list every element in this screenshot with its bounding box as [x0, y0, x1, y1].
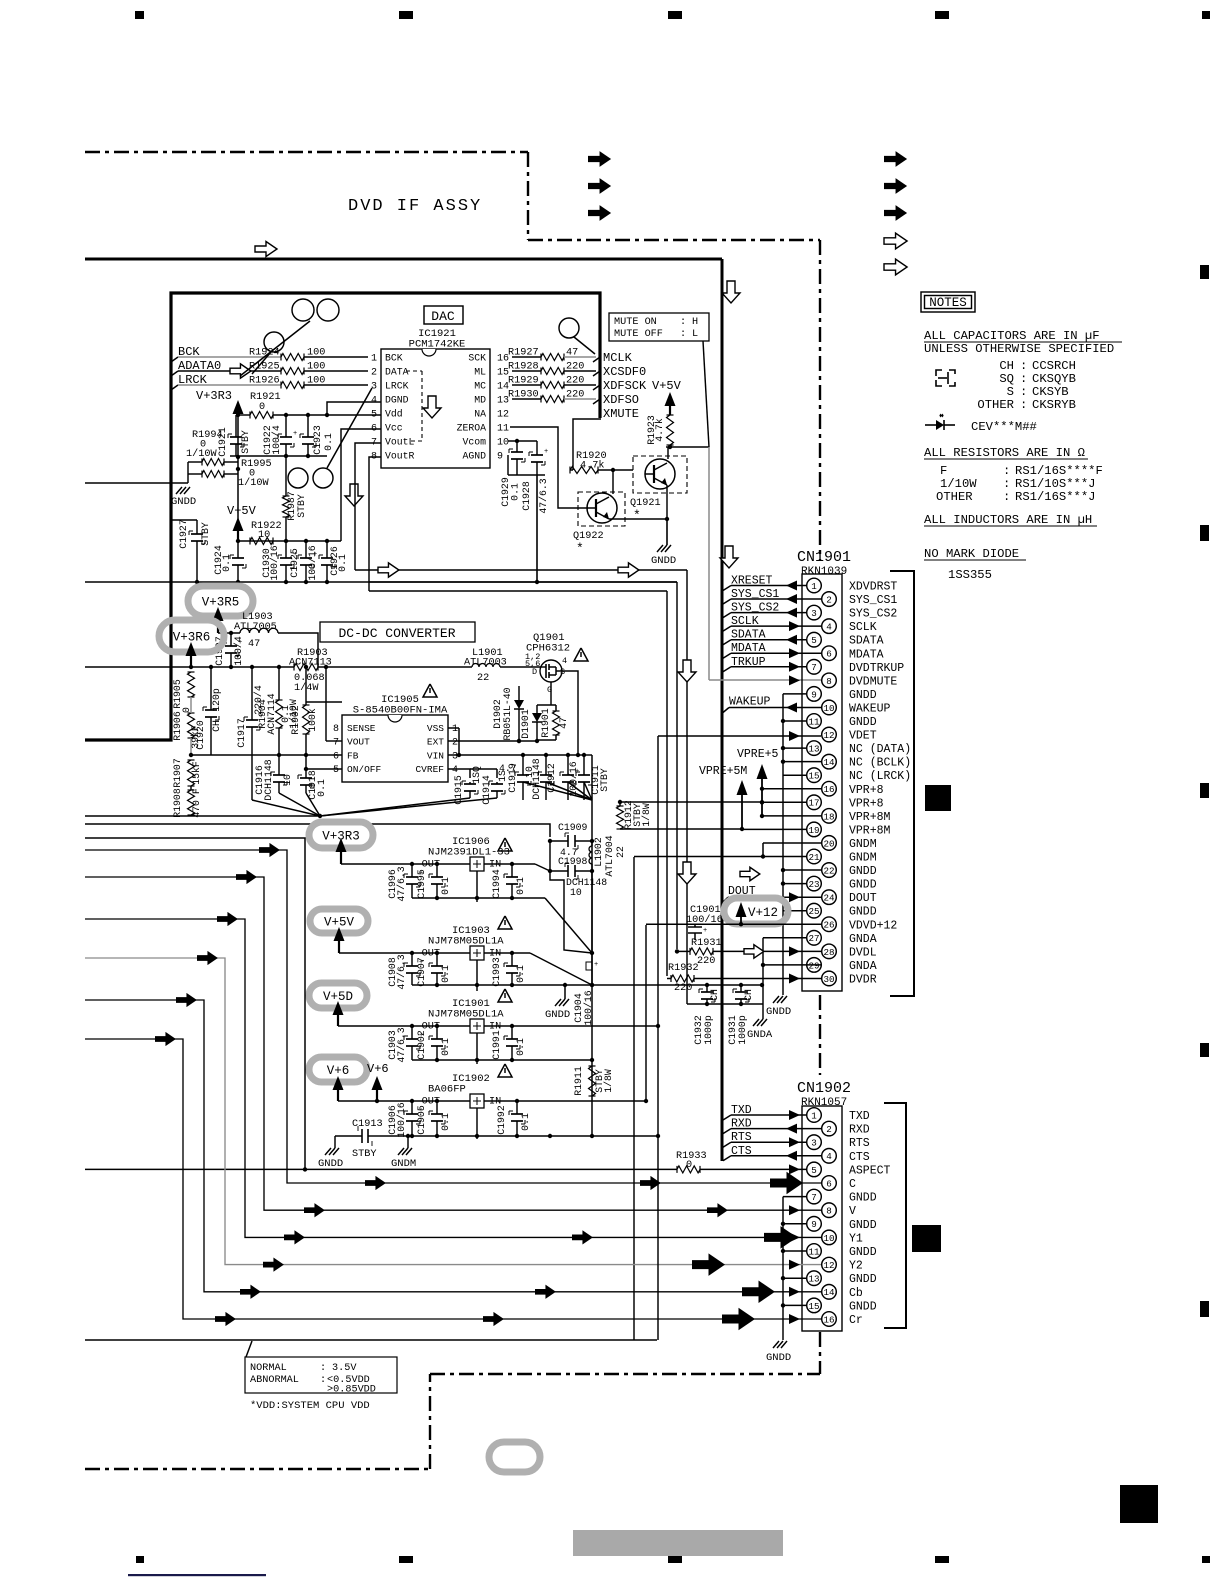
- svg-text:R1921: R1921: [250, 392, 281, 403]
- svg-text:DCH1148: DCH1148: [263, 759, 274, 800]
- svg-text:4: 4: [826, 622, 832, 633]
- capacitor C1921 STBY: [235, 415, 237, 437]
- svg-text:V+5V: V+5V: [652, 379, 682, 393]
- wire VIN: [448, 754, 578, 756]
- capacitor C1902 0.1: [436, 1026, 438, 1039]
- wire VPR+8M stub pin19: [742, 828, 806, 830]
- svg-text:C1902: C1902: [416, 1030, 427, 1060]
- svg-text:GNDA: GNDA: [849, 960, 877, 973]
- wire cap bottom rail: [230, 455, 327, 457]
- svg-text:C1913: C1913: [352, 1119, 383, 1130]
- svg-text:D: D: [532, 667, 537, 677]
- capacitor C1994 0.1: [511, 864, 513, 877]
- power arrow V+5V mute: [665, 392, 676, 406]
- arrow large before pin 14: [742, 1281, 775, 1304]
- svg-text:47/6.3: 47/6.3: [396, 866, 407, 901]
- svg-text:C: C: [849, 1178, 856, 1191]
- svg-text:RKN1039: RKN1039: [801, 566, 847, 578]
- ground GNDD CN1902: [773, 1341, 779, 1348]
- capacitor C1905 0.1: [436, 1101, 438, 1114]
- open down arrow below IC1921: [345, 484, 363, 506]
- svg-text:5: 5: [811, 635, 817, 646]
- capacitor C1917 220/4: [251, 667, 253, 720]
- svg-text:CN1901: CN1901: [797, 549, 851, 566]
- svg-text:0.1: 0.1: [323, 433, 334, 451]
- measurement note box: [246, 1341, 252, 1357]
- svg-text:CVREF: CVREF: [415, 764, 444, 775]
- wire Q1921 emitter to ground: [666, 519, 668, 545]
- wire VDET trunk: [657, 736, 659, 1136]
- svg-text:220: 220: [674, 983, 692, 994]
- svg-text:SYS_CS2: SYS_CS2: [849, 608, 897, 621]
- svg-text:4: 4: [826, 1151, 832, 1162]
- svg-text:GNDD: GNDD: [766, 1352, 791, 1364]
- wire IC1906 in diag: [535, 864, 550, 871]
- wire GNDA stubs: [763, 937, 806, 939]
- svg-text:NJM78M05DL1A: NJM78M05DL1A: [428, 936, 504, 948]
- svg-text:9: 9: [811, 689, 817, 700]
- svg-text:20: 20: [823, 838, 834, 849]
- warning mark IC1902: [498, 1064, 512, 1077]
- svg-text:11: 11: [808, 716, 820, 727]
- wire rail 667: [85, 666, 294, 668]
- wire VoutL drop: [355, 443, 381, 570]
- wire BCK: [178, 356, 281, 358]
- svg-text:V+5V: V+5V: [324, 916, 355, 930]
- svg-text:NOTES: NOTES: [929, 296, 967, 310]
- capacitor C1914 1S: [496, 782, 498, 784]
- svg-text:ACN7114: ACN7114: [266, 693, 277, 734]
- svg-text:C1905: C1905: [416, 1105, 427, 1135]
- svg-text:VPR+8M: VPR+8M: [849, 811, 891, 824]
- capacitor C1920 120p CH: [210, 667, 212, 710]
- svg-text:8: 8: [826, 1206, 832, 1217]
- bracket CN1901: [890, 571, 914, 996]
- svg-text:GNDA: GNDA: [747, 1029, 773, 1041]
- svg-text:C1928: C1928: [521, 481, 532, 511]
- svg-text:21: 21: [808, 852, 820, 863]
- svg-text:V+3R3: V+3R3: [196, 389, 232, 403]
- svg-text:23: 23: [808, 879, 819, 890]
- ground GNDA CN1901: [753, 1019, 759, 1026]
- wire MCLK from IC1921: [512, 356, 541, 358]
- svg-text:V: V: [849, 1205, 856, 1218]
- svg-text:VPRE+5M: VPRE+5M: [699, 765, 747, 778]
- svg-text:GNDD: GNDD: [849, 716, 877, 729]
- connection circle pair A: [292, 299, 314, 321]
- svg-text:STBY: STBY: [352, 1149, 376, 1160]
- wire R1912 top to VPR8: [619, 802, 621, 806]
- svg-text:4: 4: [562, 656, 567, 666]
- leader line D: [574, 337, 595, 354]
- svg-text:1/10W: 1/10W: [940, 477, 977, 491]
- svg-text:18: 18: [823, 811, 834, 822]
- svg-text:XDFSCK: XDFSCK: [603, 379, 647, 393]
- wire XDFSCK from IC1921: [512, 384, 541, 386]
- svg-text:100/16: 100/16: [583, 990, 594, 1025]
- svg-text:OTHER: OTHER: [977, 398, 1014, 412]
- svg-text:CH: CH: [211, 720, 222, 732]
- svg-text:DCH1148: DCH1148: [531, 758, 542, 799]
- wire to label XDFSO: [564, 398, 596, 400]
- open right arrow mid: [740, 867, 760, 881]
- wire VoutR drop: [369, 457, 381, 591]
- wire DGND pin4: [327, 402, 381, 415]
- capacitor C1919 10: [522, 755, 524, 775]
- svg-text:1SS355: 1SS355: [948, 568, 992, 582]
- wire L1902 net: [591, 841, 593, 846]
- svg-text:VDET: VDET: [849, 730, 877, 743]
- svg-text:EXT: EXT: [427, 737, 444, 748]
- signal video line to CN1902 pin 6: [85, 850, 821, 1183]
- resistor R1902 100k: [303, 705, 310, 734]
- svg-text:16: 16: [823, 1314, 834, 1325]
- svg-text:XCSDF0: XCSDF0: [603, 365, 646, 379]
- connection circle B: [264, 332, 284, 352]
- leader line B: [252, 352, 271, 374]
- capacitor C1910 100/16: [567, 755, 569, 775]
- wire row4 bottom rail: [380, 1135, 658, 1137]
- svg-text:Vdd: Vdd: [385, 409, 403, 420]
- wire FB rail: [191, 754, 342, 756]
- svg-text:13: 13: [808, 744, 819, 755]
- svg-text:11: 11: [808, 1246, 820, 1257]
- svg-text:GNDA: GNDA: [849, 933, 877, 946]
- arrowhead pin 8: [789, 1205, 800, 1215]
- open down arrow before CN1901: [720, 546, 738, 568]
- svg-text:100/16: 100/16: [269, 545, 280, 580]
- svg-text:CKSQYB: CKSQYB: [1032, 372, 1076, 386]
- svg-text:VoutR: VoutR: [385, 451, 415, 462]
- wire LRCK: [178, 384, 281, 386]
- capacitor C1916 DCH1148 10: [278, 755, 280, 775]
- wire rail 824: [85, 824, 550, 837]
- arrow large before pin 6: [770, 1172, 803, 1195]
- svg-text:Vcom: Vcom: [462, 437, 486, 448]
- svg-text:R1907: R1907: [172, 758, 183, 788]
- svg-text:OTHER: OTHER: [936, 490, 973, 504]
- svg-text:R1911: R1911: [573, 1066, 584, 1096]
- svg-text:47/6.3: 47/6.3: [396, 1027, 407, 1062]
- wire DVDR trunk: [666, 591, 668, 976]
- capacitor C1992 0.1: [516, 1101, 518, 1114]
- svg-text:MUTE OFF: MUTE OFF: [614, 329, 663, 340]
- svg-text:ALL INDUCTORS ARE IN µH: ALL INDUCTORS ARE IN µH: [924, 513, 1092, 527]
- wire to Q1922 collector: [612, 470, 614, 494]
- connection circle D: [559, 318, 579, 338]
- wire EXT: [448, 740, 537, 742]
- svg-text:GNDD: GNDD: [318, 1158, 343, 1170]
- svg-text::: :: [1020, 359, 1027, 373]
- svg-text:LRCK: LRCK: [385, 381, 409, 392]
- svg-text:1/8W: 1/8W: [603, 1069, 614, 1093]
- svg-text:VPR+8M: VPR+8M: [849, 824, 891, 837]
- svg-text:+: +: [293, 430, 297, 438]
- wire VDET lower segment: [657, 1136, 659, 1340]
- wire BCK to pin: [304, 356, 368, 358]
- arrow on video line pin 6: [365, 1176, 386, 1190]
- svg-text:CKSRYB: CKSRYB: [1032, 398, 1076, 412]
- svg-text:0.1: 0.1: [515, 877, 526, 895]
- svg-text:470 F: 470 F: [191, 788, 202, 818]
- svg-text:1: 1: [811, 1110, 817, 1121]
- ground GNDD CN1901 bottom: [773, 996, 779, 1003]
- resistor R1907 15kF: [188, 760, 195, 786]
- wire DVDL trunk: [676, 582, 678, 949]
- svg-text:MCLK: MCLK: [603, 351, 633, 365]
- power arrow V+6 b: [372, 1076, 383, 1090]
- svg-text:3: 3: [811, 608, 817, 619]
- arrow on video line pin 12: [263, 1257, 284, 1271]
- wire GNDD feed: [85, 482, 188, 484]
- ground GNDD regulators: [325, 1148, 331, 1155]
- svg-text:C1994: C1994: [491, 869, 502, 899]
- svg-text:SYS_CS1: SYS_CS1: [849, 594, 897, 607]
- dash-dot below CN1902: [819, 1332, 821, 1374]
- svg-text:28: 28: [823, 947, 834, 958]
- svg-text:GNDM: GNDM: [849, 838, 877, 851]
- wire SENSE: [306, 701, 342, 703]
- svg-text:7: 7: [333, 738, 339, 749]
- svg-text:NJM78M05DL1A: NJM78M05DL1A: [428, 1009, 504, 1021]
- signal video line to CN1902 pin 12: [85, 958, 821, 1265]
- leader line pair A: [240, 321, 310, 376]
- svg-text:7: 7: [811, 1192, 817, 1203]
- svg-text:UNLESS OTHERWISE SPECIFIED: UNLESS OTHERWISE SPECIFIED: [924, 342, 1114, 356]
- svg-text:R1929: R1929: [508, 376, 539, 387]
- svg-text:R1902: R1902: [290, 705, 301, 735]
- arrow large before pin 16: [722, 1308, 755, 1331]
- svg-text::: :: [680, 317, 686, 328]
- svg-text:Y2: Y2: [849, 1260, 863, 1273]
- svg-text:GNDD: GNDD: [766, 1006, 791, 1018]
- node R1923 bottom: [666, 446, 709, 448]
- svg-text:17: 17: [808, 798, 819, 809]
- diode symbol CEV: [925, 424, 936, 426]
- svg-text:1: 1: [371, 354, 377, 365]
- arrowhead pin 14: [789, 1287, 800, 1297]
- wire AGND: [507, 455, 509, 475]
- wire bottom horizontal 1340: [85, 1339, 657, 1341]
- svg-text:11: 11: [497, 424, 509, 435]
- svg-text:R1905: R1905: [172, 679, 183, 709]
- svg-text:27: 27: [808, 933, 819, 944]
- svg-text:25: 25: [808, 906, 819, 917]
- svg-text:C1923: C1923: [312, 425, 323, 455]
- wire IC1901 in right: [530, 1025, 658, 1027]
- ground GNDD left: [176, 487, 182, 494]
- wire audio bus 582: [85, 581, 369, 583]
- off-page arrows group right: [884, 151, 907, 167]
- capacitor C1929 0.1: [516, 441, 518, 452]
- svg-text:30: 30: [823, 974, 834, 985]
- svg-text:100/16: 100/16: [396, 1102, 407, 1137]
- svg-text:9: 9: [811, 1219, 817, 1230]
- warning mark IC1906: [498, 838, 512, 851]
- ground GNDM regulators: [407, 1136, 409, 1148]
- svg-text:5: 5: [333, 765, 339, 776]
- svg-text:R1906: R1906: [172, 711, 183, 741]
- arrowhead pin 16: [789, 1314, 800, 1324]
- svg-text::: :: [1003, 490, 1010, 504]
- svg-text:R1928: R1928: [508, 362, 539, 373]
- inductor L1902 ATL7004 22: [589, 846, 592, 864]
- svg-text:STBY: STBY: [240, 430, 251, 454]
- svg-text:29: 29: [808, 960, 819, 971]
- power arrow V+5V left: [233, 517, 244, 531]
- capacitor C1993 0.1: [511, 953, 513, 966]
- wire VSS rail: [448, 727, 459, 729]
- capacitor C1903 47/6.3: [411, 1026, 413, 1039]
- svg-text:STBY: STBY: [200, 522, 211, 546]
- svg-text:SQ: SQ: [999, 372, 1014, 386]
- wire row1 bottom rail: [412, 897, 545, 899]
- capacitor C1915 1SQ: [469, 782, 471, 784]
- svg-text:220: 220: [697, 956, 715, 967]
- dash-dot below CN1901: [819, 995, 821, 1075]
- svg-text::: :: [1020, 398, 1027, 412]
- wire bus 582 drop: [369, 581, 677, 583]
- signal video line to CN1902 pin 8: [85, 877, 821, 1210]
- arrow on feed line pin 10: [217, 912, 238, 926]
- svg-text:DVDTRKUP: DVDTRKUP: [849, 662, 904, 675]
- svg-text:0.1: 0.1: [440, 1113, 451, 1131]
- arrow on feed line pin 12: [197, 951, 218, 965]
- svg-text:V+3R6: V+3R6: [173, 631, 211, 645]
- svg-text:S: S: [560, 667, 565, 677]
- capacitor C1923 0.1: [307, 415, 309, 437]
- DC-DC CONVERTER title: [320, 622, 475, 642]
- svg-text:C1998: C1998: [558, 856, 588, 867]
- svg-text:0.1: 0.1: [316, 779, 327, 797]
- wire V5 rail: [238, 540, 341, 542]
- svg-text:CCSRCH: CCSRCH: [1032, 359, 1076, 373]
- svg-text:V+12: V+12: [748, 906, 778, 920]
- svg-text:RS1/16S***J: RS1/16S***J: [1015, 490, 1095, 504]
- wire R1994 left tie: [187, 462, 189, 483]
- svg-text:13: 13: [808, 1274, 819, 1285]
- resistor R1912 STBY 1/8W: [617, 806, 624, 829]
- capacitor C1924 0.1: [237, 541, 239, 558]
- svg-text:ALL RESISTORS ARE IN Ω: ALL RESISTORS ARE IN Ω: [924, 446, 1085, 460]
- wire GNDM stubs: [763, 842, 821, 844]
- wire VDVD+12 pin 26: [646, 923, 821, 925]
- svg-text:100/16: 100/16: [686, 914, 723, 926]
- power rail V+5V highlight: [310, 909, 368, 933]
- svg-text:Cr: Cr: [849, 1314, 863, 1327]
- svg-text:1: 1: [452, 724, 458, 735]
- arrow on feed line pin 8: [236, 870, 257, 884]
- arrowhead pin 12: [789, 1260, 800, 1270]
- svg-text:R1932: R1932: [668, 963, 699, 974]
- svg-text:14: 14: [823, 1287, 835, 1298]
- wire from MUTE table: [703, 341, 709, 447]
- fan right cluster: [523, 782, 592, 800]
- capacitor C1918 0.1: [305, 769, 307, 778]
- wire LRCK to pin: [304, 384, 368, 386]
- wire rail 816: [85, 815, 320, 817]
- arrow on video line pin 6: [640, 1176, 661, 1190]
- svg-text:MUTE ON: MUTE ON: [614, 317, 657, 328]
- svg-text:R1927: R1927: [508, 348, 539, 359]
- power arrow VPRE+5: [757, 764, 768, 779]
- capacitor C1925 100/16: [305, 541, 307, 558]
- svg-text:H: H: [692, 317, 698, 328]
- svg-text:BA06FP: BA06FP: [428, 1084, 466, 1096]
- svg-text::: :: [1003, 464, 1010, 478]
- svg-text:0.1: 0.1: [337, 554, 348, 572]
- capacitor C1930 100/16: [285, 541, 287, 558]
- signal video line to CN1902 pin 16: [85, 1039, 821, 1319]
- svg-text:FB: FB: [347, 750, 359, 761]
- wire ASPECT riser: [85, 838, 305, 1169]
- svg-text::: :: [1003, 477, 1010, 491]
- svg-text:V+3R5: V+3R5: [202, 596, 240, 610]
- svg-text:GNDD: GNDD: [849, 1192, 877, 1205]
- svg-text:MD: MD: [474, 395, 486, 406]
- svg-text:+: +: [703, 927, 707, 935]
- svg-text:CH: CH: [743, 989, 754, 1001]
- open right arrows on bus 570: [378, 563, 399, 577]
- resistor R1911 STBY 1/8W: [589, 1066, 596, 1096]
- svg-text:V+5V: V+5V: [227, 504, 257, 518]
- svg-text:C1992: C1992: [496, 1105, 507, 1135]
- svg-text:C1909: C1909: [558, 822, 588, 833]
- svg-text:220/4: 220/4: [253, 685, 264, 715]
- power rail V+6 highlight: [309, 1057, 367, 1082]
- node B+ mark: [586, 962, 592, 970]
- svg-text:IN: IN: [489, 860, 501, 871]
- svg-text:2: 2: [371, 368, 377, 379]
- svg-text:GNDD: GNDD: [171, 496, 196, 508]
- svg-text:DATA: DATA: [385, 367, 409, 378]
- resistor R1904 ACN7114 0.1 1/10W: [276, 700, 283, 728]
- svg-text:RKN1057: RKN1057: [801, 1097, 847, 1109]
- svg-text:*: *: [633, 508, 641, 523]
- svg-text:4.7k: 4.7k: [654, 418, 665, 442]
- svg-text:C1927: C1927: [178, 519, 189, 549]
- arrow large before pin 10: [764, 1226, 797, 1249]
- wire XMUTE to R1920: [570, 469, 573, 471]
- svg-text:CTS: CTS: [849, 1151, 870, 1164]
- svg-text:6: 6: [826, 1178, 832, 1189]
- wire VOUT: [325, 667, 327, 741]
- wire IC1903 in diag: [530, 953, 592, 985]
- svg-text:8: 8: [826, 676, 832, 687]
- power arrow V+3R5: [213, 607, 224, 621]
- svg-text:100/4: 100/4: [271, 425, 282, 455]
- svg-text:C1919: C1919: [507, 763, 518, 793]
- ground GNDD mute: [657, 545, 663, 552]
- signal VDET to pin 12: [658, 735, 821, 737]
- svg-text:AGND: AGND: [462, 451, 486, 462]
- svg-text:C1993: C1993: [491, 957, 502, 987]
- arrow on video line pin 8: [707, 1203, 728, 1217]
- svg-text:5: 5: [811, 1165, 817, 1176]
- svg-text:47: 47: [558, 717, 569, 729]
- svg-text:47: 47: [248, 639, 260, 650]
- svg-text:12: 12: [823, 730, 834, 741]
- svg-text:CH: CH: [709, 989, 720, 1001]
- svg-text:4: 4: [452, 765, 458, 776]
- svg-text:6: 6: [826, 649, 832, 660]
- svg-text:F: F: [940, 464, 947, 478]
- power arrow V+6 a: [333, 1076, 344, 1090]
- svg-text:1000p: 1000p: [703, 1015, 714, 1045]
- svg-text:10: 10: [823, 1233, 834, 1244]
- svg-text:47/6.3: 47/6.3: [538, 478, 549, 513]
- svg-text:C1925: C1925: [289, 548, 300, 578]
